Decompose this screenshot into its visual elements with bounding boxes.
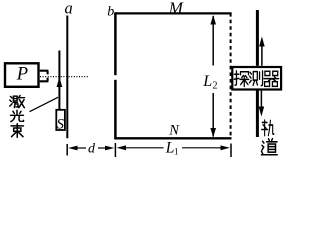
label 激光束 (laser beam, vertical) <box>10 96 25 108</box>
chamber box : top edge M <box>114 12 231 14</box>
laser box P <box>5 63 39 87</box>
chamber box : right edge (dashed) <box>230 13 232 138</box>
track (thick vertical line) <box>256 10 259 66</box>
label 轨道 (track, vertical) <box>262 120 274 136</box>
svg-text:L: L <box>202 73 212 90</box>
chamber box : bottom edge N <box>114 137 231 139</box>
dimension d : left arrow <box>68 146 77 151</box>
svg-text:L: L <box>165 140 175 157</box>
svg-text:S: S <box>57 116 65 132</box>
dimension L2 : shaft <box>212 16 214 66</box>
L2 bottom arrowhead <box>210 128 216 137</box>
rod / rail above S <box>58 51 60 111</box>
shared tick below box corner <box>114 143 116 157</box>
svg-text:a: a <box>65 0 73 18</box>
up arrow beside track <box>261 45 263 66</box>
label 探测器 (detector) <box>234 71 249 87</box>
up arrowhead on rod (points at beam) <box>57 77 63 87</box>
laser nozzle <box>40 71 49 82</box>
dimension L1 <box>117 145 126 150</box>
slider box S <box>56 110 65 130</box>
rail a (vertical line) <box>66 16 68 139</box>
chamber box : left edge with slit <box>114 13 117 75</box>
dimension d : left tick <box>66 144 68 156</box>
svg-text:M: M <box>168 0 184 17</box>
svg-text:P: P <box>16 65 28 85</box>
detector box <box>232 67 281 90</box>
svg-text:2: 2 <box>213 81 218 92</box>
laser beam (dotted) <box>40 76 89 78</box>
svg-text:1: 1 <box>174 147 179 157</box>
L1 right tick <box>230 144 232 158</box>
svg-text:d: d <box>88 142 96 157</box>
svg-text:b: b <box>107 4 114 19</box>
pointer line from 激光束 to beam <box>30 97 59 111</box>
L2 top arrowhead <box>210 15 216 25</box>
down arrow beside track <box>260 90 262 107</box>
svg-text:N: N <box>168 123 180 139</box>
dimension d : right arrow <box>98 147 106 149</box>
